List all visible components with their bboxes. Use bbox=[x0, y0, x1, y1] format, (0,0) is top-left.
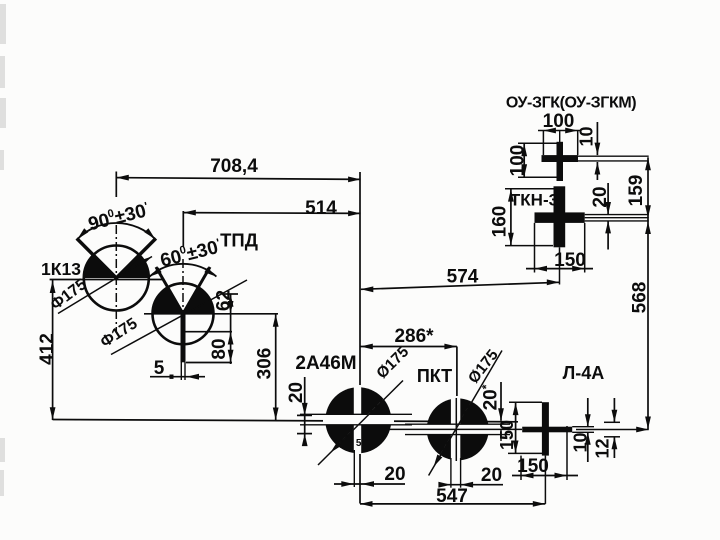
svg-text:ТКН-3: ТКН-3 bbox=[510, 191, 558, 210]
svg-text:62: 62 bbox=[214, 290, 235, 311]
PKT upper extension line bbox=[456, 347, 458, 399]
leader glint across PKT disc bbox=[441, 398, 474, 454]
dimension 20 (right of PKT, offset) bbox=[500, 382, 502, 421]
dimension 10 (OU bar) bbox=[596, 122, 598, 155]
dimension 12 bbox=[604, 421, 620, 423]
dimension 20 (below PKT) bbox=[439, 484, 503, 486]
svg-text:159: 159 bbox=[626, 175, 647, 207]
leader D175 (PKT) bbox=[429, 351, 502, 476]
scan smudges left edge bbox=[0, 4, 6, 496]
dimension 20 (below 2A46M) bbox=[334, 483, 405, 485]
svg-text:20: 20 bbox=[384, 464, 405, 485]
svg-text:708,4: 708,4 bbox=[210, 156, 258, 177]
dimension 20 (left of 2A46M) bbox=[304, 377, 306, 437]
svg-text:412: 412 bbox=[37, 333, 58, 365]
svg-text:100: 100 bbox=[508, 145, 529, 177]
svg-text:12: 12 bbox=[593, 438, 613, 458]
fan arc 60deg bbox=[150, 264, 217, 277]
svg-text:286*: 286* bbox=[394, 326, 434, 347]
lug bar below center bbox=[181, 314, 186, 363]
dash-dot centerline bbox=[182, 259, 184, 351]
leader D175 (2A46M) bbox=[318, 381, 403, 466]
dimension 20 (TKN bar) bbox=[607, 183, 609, 215]
svg-text:306: 306 bbox=[255, 348, 276, 380]
dimension 160 bbox=[505, 189, 554, 246]
svg-text:100: 100 bbox=[543, 111, 575, 132]
svg-text:10: 10 bbox=[571, 432, 591, 452]
svg-text:ОУ-ЗГК(ОУ-ЗГКМ): ОУ-ЗГК(ОУ-ЗГКМ) bbox=[506, 95, 636, 112]
main vertical extension line through 2A46M bbox=[359, 172, 361, 504]
svg-text:20: 20 bbox=[481, 465, 502, 486]
svg-text:150: 150 bbox=[497, 420, 517, 450]
fan arc 90deg bbox=[77, 223, 155, 239]
svg-text:20: 20 bbox=[286, 382, 307, 403]
leader glint across 2A46M disc bbox=[333, 399, 384, 450]
dimension 150 (below TKN) bbox=[526, 223, 593, 273]
svg-text:ПКТ: ПКТ bbox=[417, 366, 452, 386]
svg-text:150: 150 bbox=[517, 456, 549, 477]
horizontal centerline bbox=[144, 313, 278, 315]
dimension 100 (left) bbox=[518, 143, 557, 177]
dimension 150 (left of L-4A) bbox=[515, 402, 517, 453]
svg-text:150: 150 bbox=[554, 250, 586, 271]
svg-text:568: 568 bbox=[630, 282, 651, 314]
horizontal centerline bbox=[50, 279, 163, 281]
svg-text:547: 547 bbox=[436, 486, 468, 507]
svg-text:10: 10 bbox=[577, 126, 597, 146]
wedge edge lines 90deg bbox=[116, 238, 156, 278]
svg-text:2А46М: 2А46М bbox=[295, 353, 356, 374]
dimension 100 (top) bbox=[538, 131, 581, 156]
svg-text:5: 5 bbox=[154, 358, 165, 379]
leader F175 (1K13) bbox=[58, 257, 152, 314]
svg-text:5: 5 bbox=[356, 438, 362, 449]
svg-text:ТПД: ТПД bbox=[220, 230, 258, 251]
svg-text:160: 160 bbox=[490, 206, 511, 238]
dash-dot centerline bbox=[115, 225, 117, 333]
leader F175 (TPD) bbox=[111, 280, 247, 355]
svg-text:574: 574 bbox=[447, 267, 479, 288]
svg-text:514: 514 bbox=[305, 198, 337, 219]
svg-text:20: 20 bbox=[590, 186, 611, 207]
svg-text:80: 80 bbox=[209, 338, 230, 359]
wedge edge lines 60deg bbox=[183, 267, 210, 314]
svg-text:Л-4А: Л-4А bbox=[563, 363, 605, 383]
svg-text:1К13: 1К13 bbox=[41, 259, 81, 279]
dimension 150 (below L-4A) bbox=[520, 456, 522, 480]
dimension 10 (L-4A bar) bbox=[572, 426, 594, 428]
